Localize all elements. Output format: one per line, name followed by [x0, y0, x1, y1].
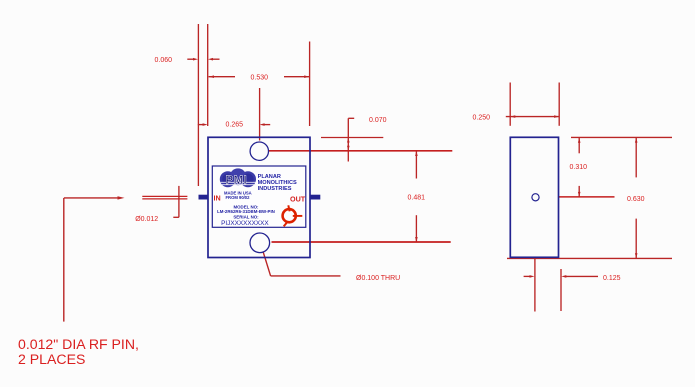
- dim 0.310 lower segment: [578, 186, 580, 197]
- hole-center long line (bottom hole): [272, 241, 451, 243]
- pin-center line to right: [546, 196, 615, 198]
- dim 0.530 line left segment: [209, 76, 235, 78]
- dim 0.265 left arrow segment: [198, 124, 203, 126]
- bottom mounting hole: [250, 233, 270, 253]
- svg-text:0.310: 0.310: [570, 164, 588, 171]
- dia 0.012 leader bottom tick: [173, 216, 179, 218]
- svg-text:INDUSTRIES: INDUSTRIES: [258, 186, 292, 192]
- svg-text:IN: IN: [214, 194, 221, 203]
- extension line from left pin tab tip: [197, 24, 199, 186]
- extension line side right edge downward: [560, 269, 562, 311]
- dim 0.630 lower segment: [635, 219, 637, 258]
- svg-text:0.530: 0.530: [251, 75, 269, 82]
- dim 0.265 right arrow segment: [264, 124, 270, 126]
- dim 0.070 bracket vertical: [347, 118, 349, 161]
- label outline: [212, 166, 305, 227]
- svg-text:SERIAL NO:: SERIAL NO:: [233, 214, 259, 219]
- svg-text:OUT: OUT: [290, 195, 306, 204]
- extension line side right edge: [558, 83, 560, 126]
- side pin hole: [532, 194, 539, 201]
- extension line side left edge: [509, 83, 511, 126]
- svg-text:FROM 90/02: FROM 90/02: [226, 195, 251, 200]
- dim 0.125 right segment: [566, 275, 599, 277]
- side body outline: [510, 137, 558, 257]
- dim 0.070 bracket top tick: [348, 117, 354, 119]
- PMI logo: [220, 168, 256, 187]
- dim 0.125 left arrow segment: [524, 275, 530, 277]
- svg-text:0.012" DIA RF PIN,: 0.012" DIA RF PIN,: [18, 336, 139, 352]
- extension line hole center vertical: [259, 88, 261, 141]
- svg-text:PMI: PMI: [226, 175, 248, 187]
- dia 0.012 leader vertical: [178, 186, 180, 217]
- svg-text:0.250: 0.250: [473, 115, 491, 122]
- dim 0.310 upper segment: [578, 138, 580, 153]
- extension of side top edge to right: [571, 136, 672, 138]
- left pin tab: [199, 195, 209, 200]
- extension of side bottom edge (runs under part to right): [507, 257, 672, 259]
- callout leader vertical: [63, 198, 65, 322]
- dim 0.630 upper segment: [635, 137, 637, 177]
- dim 0.250 line: [506, 116, 559, 118]
- svg-text:0.630: 0.630: [627, 196, 645, 203]
- extension line from body left edge: [207, 24, 209, 126]
- RF pin drawn (two thin red lines): [142, 195, 187, 197]
- extension line body right edge (top): [309, 42, 311, 127]
- svg-text:PIJXXXXXXXXX: PIJXXXXXXXXX: [221, 220, 269, 227]
- arrow down at hole-center on 0.070 vertical: [347, 146, 350, 151]
- hole-center long line (top hole): [269, 150, 453, 152]
- dim 0.481 lower vertical: [415, 215, 417, 241]
- dim 0.060 right arrow segment: [213, 58, 220, 60]
- dim 0.060 left arrow segment: [187, 58, 193, 60]
- top mounting hole: [250, 142, 268, 160]
- svg-text:0.481: 0.481: [408, 194, 426, 201]
- extension of body top edge to right: [321, 137, 383, 139]
- ESD symbol: [283, 205, 303, 226]
- right pin tab: [310, 195, 320, 200]
- body outline: [208, 137, 310, 257]
- dim 0.481 upper vertical: [415, 151, 417, 178]
- svg-text:Ø0.100 THRU: Ø0.100 THRU: [356, 275, 400, 282]
- svg-text:Ø0.012: Ø0.012: [135, 216, 158, 223]
- leader diagonal from bottom hole: [262, 249, 270, 276]
- svg-text:0.265: 0.265: [226, 122, 244, 129]
- svg-text:0.125: 0.125: [603, 275, 621, 282]
- svg-text:PLANAR: PLANAR: [258, 174, 281, 180]
- callout leader horizontal with arrow: [64, 197, 120, 199]
- side pin centerline vertical: [534, 208, 536, 312]
- svg-text:2 PLACES: 2 PLACES: [18, 351, 85, 367]
- leader horizontal to THRU note: [271, 275, 341, 277]
- svg-text:0.060: 0.060: [155, 57, 173, 64]
- dim 0.530 line right segment: [284, 76, 310, 78]
- arrow up at body-top on 0.070 vertical: [347, 138, 350, 143]
- svg-text:0.070: 0.070: [369, 117, 387, 124]
